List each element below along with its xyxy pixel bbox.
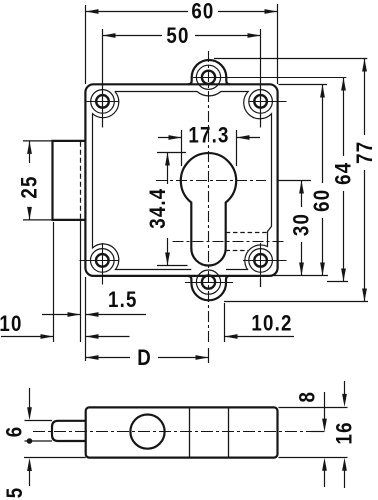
svg-text:6: 6	[3, 426, 27, 438]
hidden nut edges (dashed)	[226, 232, 268, 234]
side view body	[86, 407, 278, 457]
screw hole top-left	[96, 95, 109, 108]
bottom mounting lug	[188, 276, 230, 300]
dimension 34.4	[157, 152, 186, 154]
svg-text:60: 60	[311, 189, 335, 212]
svg-text:30: 30	[290, 213, 314, 236]
svg-text:5: 5	[4, 487, 28, 499]
svg-text:1.5: 1.5	[108, 289, 138, 313]
main axis centerline	[208, 51, 210, 344]
top lug hole	[202, 71, 215, 84]
dimension 10.2	[225, 336, 295, 338]
dimension 60 (right)	[322, 85, 324, 184]
dimension 8	[324, 392, 326, 419]
svg-text:16: 16	[333, 421, 357, 444]
dimension 50	[102, 29, 104, 128]
svg-text:34.4: 34.4	[146, 188, 170, 229]
svg-text:77: 77	[353, 141, 377, 164]
svg-text:8: 8	[296, 391, 320, 403]
dimension D	[86, 357, 131, 359]
bottom extension lines	[53, 222, 55, 342]
hole centerlines	[85, 101, 119, 103]
dimension 64 (right)	[343, 78, 345, 157]
dimension 6 (arrow + dot)	[29, 388, 31, 408]
side view bolt stub	[52, 421, 86, 441]
dimension 60 top	[85, 5, 87, 84]
screw hole bottom-left	[96, 254, 109, 267]
svg-text:D: D	[137, 347, 152, 371]
nut horizontal centerline	[173, 241, 285, 243]
dimension 25	[23, 140, 52, 142]
bottom lug hole	[202, 276, 215, 289]
screw hole bottom-right	[254, 254, 267, 267]
side view left extension lines	[25, 420, 53, 422]
side view division lines	[189, 407, 191, 457]
top mounting lug	[188, 60, 230, 84]
inner contour of case rim	[93, 92, 272, 270]
svg-text:25: 25	[18, 175, 42, 198]
svg-text:10.2: 10.2	[251, 312, 292, 336]
svg-text:10: 10	[0, 313, 23, 337]
svg-text:50: 50	[166, 25, 189, 49]
dimension 1.5	[42, 314, 81, 316]
dimension 30 (right)	[301, 181, 303, 208]
side view right extension lines	[279, 407, 348, 409]
bolt (left protrusion)	[53, 141, 86, 220]
dimension 16	[344, 381, 346, 395]
screw hole top-right	[254, 95, 267, 108]
cylinder horizontal centerline	[156, 180, 266, 182]
lock case plate outline	[85, 84, 277, 276]
svg-text:17.3: 17.3	[188, 124, 229, 148]
dimension 10	[1, 336, 54, 338]
side view centerline	[33, 431, 325, 433]
dimension 17.3	[181, 130, 183, 166]
dimension 77 (right)	[364, 59, 366, 136]
svg-text:60: 60	[191, 0, 214, 24]
cylinder cutout (euro profile)	[181, 153, 236, 265]
side view circle	[130, 415, 164, 449]
bolt hidden edge (dashed)	[80, 142, 82, 219]
right extension lines	[214, 58, 367, 60]
svg-text:64: 64	[332, 162, 356, 185]
dimension 5 (arrow)	[29, 470, 31, 486]
